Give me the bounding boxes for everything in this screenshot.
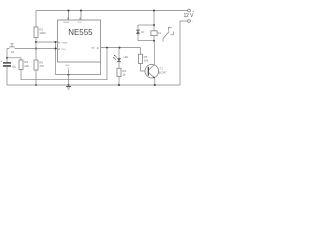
pushbutton S1 bbox=[9, 46, 15, 48]
wire tie pins 2-6 vertical x55.5 bbox=[55, 42, 57, 75]
junction gnd line on rail bbox=[68, 74, 70, 76]
wire R3 bottom lead bbox=[20, 70, 22, 80]
wire R1 top lead from rail bbox=[35, 11, 37, 28]
resistor R2 bbox=[34, 60, 38, 70]
wire LED to R4 bbox=[118, 62, 120, 68]
svg-text:TRIG: TRIG bbox=[61, 49, 66, 51]
resistor R5 bbox=[138, 54, 142, 63]
node junction dots x36 bbox=[35, 41, 37, 43]
wire diode parallel bottom bbox=[138, 40, 154, 42]
wire pin1 gnd down bbox=[68, 70, 70, 85]
wire diode parallel top bbox=[138, 24, 154, 26]
diode D1 bbox=[137, 25, 139, 30]
wire rail y74.6 to pin7 bbox=[56, 62, 101, 75]
wire R3 top to cap node bbox=[7, 58, 21, 60]
svg-text:LED: LED bbox=[124, 56, 129, 59]
op-amp U1 NE555 box bbox=[58, 20, 101, 62]
svg-text:12 V: 12 V bbox=[184, 13, 194, 19]
wire collector up to relay bbox=[153, 41, 155, 65]
junction R2 to ground rail bbox=[35, 84, 37, 86]
ground bbox=[66, 86, 71, 88]
wire VCC down to relay coil bbox=[153, 11, 155, 31]
svg-text:+: + bbox=[0, 59, 2, 63]
svg-text:RESET: RESET bbox=[64, 22, 71, 24]
relay coil K1 bbox=[151, 31, 157, 36]
LED D2 branch bbox=[118, 48, 120, 59]
wire R1 bottom to node chain bbox=[35, 38, 37, 61]
svg-text:THRES: THRES bbox=[61, 42, 68, 44]
wire emitter down to rail bbox=[154, 78, 156, 85]
pin 8 stub bbox=[80, 11, 82, 21]
wire OUT pin 3 bbox=[101, 47, 141, 49]
svg-text:100k: 100k bbox=[39, 31, 46, 35]
wire THRES pin 6 horizontal bbox=[36, 41, 58, 43]
wire R4 to ground rail bbox=[118, 77, 120, 85]
wire cap bottom to ground rail bbox=[7, 67, 180, 85]
wire branch x107 down to rail y79.7 bbox=[21, 48, 107, 80]
node cap junction bbox=[6, 57, 8, 59]
svg-text:1k: 1k bbox=[122, 73, 126, 77]
svg-text:10µ: 10µ bbox=[12, 64, 17, 68]
wire 0V terminal down right side bbox=[180, 21, 188, 85]
terminal +12V bbox=[188, 9, 191, 12]
svg-text:47k: 47k bbox=[39, 64, 44, 68]
wire R5 to base bbox=[141, 63, 149, 71]
wire OUT corner to base resistor bbox=[140, 48, 142, 55]
relay contact bbox=[163, 31, 169, 38]
svg-text:out: out bbox=[91, 47, 95, 50]
pin 4 stub bbox=[68, 11, 70, 21]
capacitor C1 electrolytic bbox=[3, 62, 11, 63]
wire TRIG pin 2 horizontal with S1 bbox=[7, 48, 9, 50]
resistor R1 bbox=[34, 27, 38, 38]
svg-text:NE555: NE555 bbox=[68, 27, 92, 37]
wire R2 bottom to ground rail bbox=[35, 70, 37, 85]
svg-text:22k: 22k bbox=[24, 64, 29, 68]
terminal 0V bbox=[188, 20, 191, 23]
transistor Q1 bbox=[145, 64, 159, 78]
svg-text:BC547: BC547 bbox=[159, 71, 167, 75]
wire S1 left down to cap bbox=[6, 49, 8, 63]
svg-text:-: - bbox=[192, 19, 193, 23]
svg-text:10k: 10k bbox=[144, 59, 149, 63]
svg-text:S1: S1 bbox=[11, 50, 15, 54]
svg-text:K1: K1 bbox=[158, 31, 162, 35]
resistor R3 bbox=[19, 60, 23, 70]
svg-text:VCC+: VCC+ bbox=[78, 22, 83, 24]
wire top VCC rail bbox=[36, 10, 188, 12]
resistor R4 bbox=[117, 68, 121, 76]
